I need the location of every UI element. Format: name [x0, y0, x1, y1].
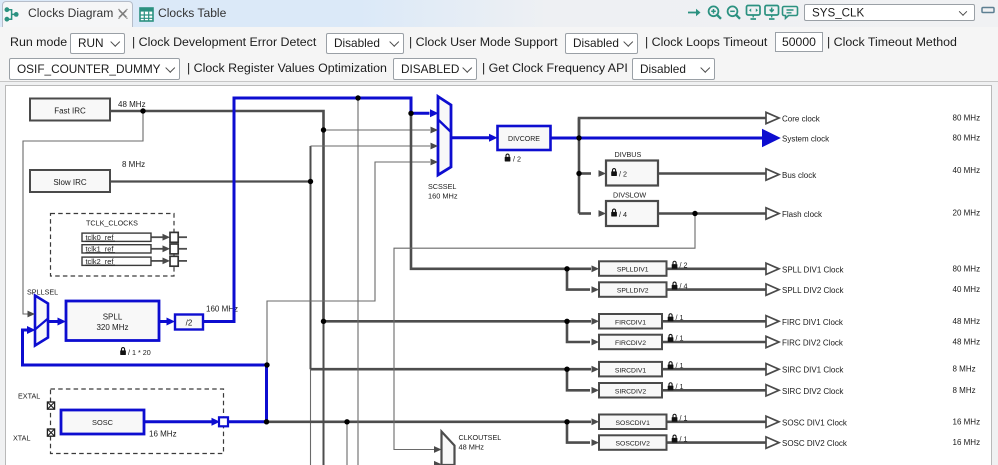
- wire SOSCDIV1 out: [667, 420, 767, 423]
- svg-text:SPLL DIV2 Clock: SPLL DIV2 Clock: [782, 286, 845, 295]
- svg-text:48 MHz: 48 MHz: [118, 100, 146, 109]
- svg-text:TCLK_CLOCKS: TCLK_CLOCKS: [86, 219, 138, 228]
- wire SIRC vertical: [310, 146, 312, 369]
- node SOSC sense tap: [264, 362, 269, 367]
- svg-text:SIRCDIV1: SIRCDIV1: [615, 367, 647, 374]
- clocks diagram tab icon: [3, 5, 25, 25]
- clocks table tab icon: [139, 7, 154, 22]
- node SOSC output square: [212, 417, 229, 426]
- wire SIRCDIV2 branch: [567, 369, 590, 390]
- node FIRC to SCSSEL tap: [321, 127, 326, 132]
- svg-text:SOSCDIV1: SOSCDIV1: [616, 420, 651, 427]
- svg-text:FIRCDIV2: FIRCDIV2: [615, 340, 646, 347]
- lock SIRCDIV1 / 1: [668, 361, 684, 370]
- svg-text:16 MHz: 16 MHz: [953, 438, 981, 447]
- wire DIVSLOW input: [579, 212, 591, 215]
- wire tclk0 stub: [178, 236, 187, 238]
- node DIVBUS branch: [576, 171, 581, 176]
- svg-text:Flash clock: Flash clock: [782, 210, 823, 219]
- lock SOSCDIV2 / 1: [672, 434, 688, 443]
- wire bus clock out: [658, 172, 766, 175]
- svg-text:FIRC DIV1 Clock: FIRC DIV1 Clock: [782, 318, 844, 327]
- svg-text:/ 1: / 1: [676, 382, 684, 391]
- wire tclk2 out: [151, 260, 164, 262]
- source Slow IRC: [30, 170, 110, 192]
- svg-text:FIRC DIV2 Clock: FIRC DIV2 Clock: [782, 339, 844, 348]
- node SOSC junction: [264, 419, 269, 424]
- top-right view toolbar icons: [684, 2, 804, 24]
- input tclk0_ref: [82, 232, 178, 242]
- svg-text:DIVBUS: DIVBUS: [615, 150, 642, 159]
- svg-text:EXTAL: EXTAL: [18, 392, 40, 401]
- wire SPLL clkout sense: [357, 98, 359, 465]
- output Flash clock: [766, 208, 980, 219]
- minimize icon: [981, 6, 996, 15]
- svg-text:/ 1: / 1: [676, 313, 684, 322]
- divider DIVCORE: [489, 126, 551, 150]
- wire SOSC feed to SOSCDIV: [268, 420, 591, 423]
- wire SOSCDIV2 branch: [567, 422, 590, 443]
- node FIRCDIV feed: [321, 319, 326, 324]
- lock FIRCDIV2 / 1: [668, 334, 684, 343]
- svg-text:8 MHz: 8 MHz: [953, 386, 976, 395]
- svg-text:SPLL: SPLL: [103, 313, 123, 322]
- toolbar row 1: [10, 35, 67, 49]
- svg-text:DIVCORE: DIVCORE: [508, 136, 540, 143]
- input tclk1_ref: [82, 244, 178, 254]
- svg-text:8 MHz: 8 MHz: [122, 160, 145, 169]
- source Fast IRC: [30, 99, 110, 121]
- svg-text:SIRC DIV2 Clock: SIRC DIV2 Clock: [782, 387, 844, 396]
- lock SPLLDIV2 / 4: [672, 282, 688, 291]
- divider SOSCDIV1: [592, 415, 667, 430]
- selected tab: Clocks Diagram: [2, 1, 133, 27]
- svg-text:FIRCDIV1: FIRCDIV1: [615, 319, 646, 326]
- svg-text:SPLLSEL: SPLLSEL: [27, 288, 58, 297]
- svg-text:16 MHz: 16 MHz: [953, 417, 981, 426]
- lock FIRCDIV1 / 1: [668, 313, 684, 322]
- svg-text:Fast IRC: Fast IRC: [54, 107, 86, 116]
- svg-text:48 MHz: 48 MHz: [953, 338, 981, 347]
- wire SIRCDIV2 out: [662, 389, 766, 392]
- mux SPLLSEL: [27, 288, 58, 346]
- wire divbus divslow vertical: [578, 118, 581, 214]
- output FIRC DIV2 Clock: [766, 336, 980, 347]
- wire SIRC stub to SCSSEL in3: [311, 145, 431, 147]
- divider SPLLDIV2: [592, 282, 667, 297]
- group SOSC dashed box: [51, 389, 224, 454]
- wire core clock branch: [579, 118, 766, 138]
- svg-text:/ 1: / 1: [680, 414, 688, 423]
- toolbar row 2: [9, 58, 180, 80]
- svg-text:SPLL DIV1 Clock: SPLL DIV1 Clock: [782, 265, 845, 274]
- svg-text:80 MHz: 80 MHz: [953, 134, 981, 143]
- wire SOSC clkout sense: [346, 422, 348, 465]
- tab close icon: [117, 8, 129, 20]
- svg-text:40 MHz: 40 MHz: [953, 166, 981, 175]
- input tclk2_ref: [82, 256, 178, 266]
- wire div2 out to SCSSEL in1: [203, 98, 430, 322]
- svg-text:80 MHz: 80 MHz: [953, 264, 981, 273]
- output SPLL DIV2 Clock: [766, 284, 980, 295]
- node Fast IRC tap: [140, 108, 145, 113]
- wire DIVBUS input: [579, 172, 591, 175]
- svg-text:SOSC DIV1 Clock: SOSC DIV1 Clock: [782, 418, 848, 427]
- wire flash clock out: [658, 212, 766, 215]
- svg-text:SIRCDIV2: SIRCDIV2: [615, 388, 647, 395]
- svg-text:48 MHz: 48 MHz: [459, 443, 485, 452]
- node SOSCDIV branch: [564, 419, 569, 424]
- node SPLL mux junction: [408, 111, 413, 116]
- divider DIVSLOW: [599, 191, 659, 227]
- node SPLLDIV branch: [564, 266, 569, 271]
- wire system clock out: [551, 137, 765, 140]
- svg-text:SPLLDIV2: SPLLDIV2: [617, 288, 649, 295]
- wire tclk0 out: [151, 236, 164, 238]
- wire SOSCDIV2 out: [667, 441, 767, 444]
- svg-text:/ 4: / 4: [619, 210, 627, 219]
- svg-text:Bus clock: Bus clock: [782, 171, 817, 180]
- divider /2 of SPLL: [167, 315, 204, 330]
- svg-text:/ 2: / 2: [619, 170, 627, 179]
- pin EXTAL: [18, 392, 55, 410]
- node SPLL top tap: [355, 95, 360, 100]
- svg-text:Core clock: Core clock: [782, 115, 821, 124]
- node SIRCDIV branch: [564, 367, 569, 372]
- output Bus clock: [766, 166, 980, 180]
- svg-text:SIRC DIV1 Clock: SIRC DIV1 Clock: [782, 366, 844, 375]
- wire SPLLDIV2 out: [667, 288, 767, 291]
- node flash sense tap: [692, 211, 697, 216]
- divider SPLLDIV1: [592, 261, 667, 276]
- wire FIRC branch to SPLLSEL in1: [23, 111, 143, 314]
- output SPLL DIV1 Clock: [766, 263, 980, 274]
- output FIRC DIV1 Clock: [766, 316, 980, 327]
- divider FIRCDIV1: [592, 314, 663, 329]
- wire SIRC net: Slow IRC out: [110, 180, 311, 182]
- wire FIRC vertical lower stub: [323, 321, 325, 465]
- mux CLKOUTSEL: [434, 432, 501, 465]
- wire flash sense to CLKOUTSEL in1: [394, 214, 695, 450]
- svg-text:40 MHz: 40 MHz: [953, 285, 981, 294]
- wire SIRCDIV feed: [311, 368, 592, 371]
- svg-text:8 MHz: 8 MHz: [953, 365, 976, 374]
- svg-text:SOSCDIV2: SOSCDIV2: [616, 441, 651, 448]
- svg-text:/ 4: / 4: [680, 282, 688, 291]
- wire FIRC stub to SCSSEL in2: [324, 129, 431, 131]
- wire SPLL net down to SPLLDIV feed: [411, 113, 591, 268]
- tab strip background: [0, 0, 998, 27]
- svg-text:SOSC DIV2 Clock: SOSC DIV2 Clock: [782, 439, 848, 448]
- svg-text:320 MHz: 320 MHz: [96, 323, 128, 332]
- pll SPLL 320 MHz: [58, 301, 160, 341]
- wire SOSC sense to SCSSEL in4: [267, 162, 430, 364]
- lock SPLLDIV1 / 2: [672, 261, 688, 270]
- lock SPLL / 1 * 20: [120, 348, 151, 357]
- divider SIRCDIV2: [592, 383, 663, 398]
- output System clock: [762, 129, 980, 147]
- lock SIRCDIV2 / 1: [668, 382, 684, 391]
- mux SCSSEL: [428, 97, 458, 201]
- svg-text:/ 2: / 2: [513, 155, 521, 164]
- svg-text:/ 1: / 1: [676, 361, 684, 370]
- node FIRCDIV2 branch: [564, 319, 569, 324]
- svg-text:SPLLDIV1: SPLLDIV1: [617, 267, 649, 274]
- wire SPLL out to div2: [159, 320, 167, 323]
- lock DIVCORE / 2: [505, 154, 521, 163]
- svg-text:Slow IRC: Slow IRC: [53, 178, 87, 187]
- wire SCSSEL out to DIVCORE: [451, 136, 490, 139]
- output Core clock: [766, 112, 980, 123]
- wire SIRCDIV1 out: [662, 368, 766, 371]
- wire FIRCDIV2 out: [662, 341, 766, 344]
- svg-text:XTAL: XTAL: [13, 434, 30, 443]
- wire tclk2 stub: [178, 260, 187, 262]
- svg-text:DIVSLOW: DIVSLOW: [613, 191, 646, 200]
- svg-text:16 MHz: 16 MHz: [149, 430, 177, 439]
- svg-text:/ 1: / 1: [676, 334, 684, 343]
- wire system clock blue path SOSC to SPLLSEL: [23, 98, 765, 422]
- svg-text:80 MHz: 80 MHz: [953, 114, 981, 123]
- output SOSC DIV1 Clock: [766, 416, 980, 427]
- node Slow IRC tap: [308, 179, 313, 184]
- svg-text:48 MHz: 48 MHz: [953, 317, 981, 326]
- divider DIVBUS: [599, 150, 659, 186]
- wire SPLLDIV2 branch: [567, 269, 590, 290]
- svg-text:160 MHz: 160 MHz: [428, 192, 458, 201]
- wire SPLLSEL out to SPLL: [48, 320, 58, 323]
- svg-text:/ 1: / 1: [680, 434, 688, 443]
- wire tclk1 stub: [178, 248, 187, 250]
- wire SIRC vertical lower stub: [310, 369, 312, 465]
- svg-text:SCSSEL: SCSSEL: [428, 182, 456, 191]
- wire FIRCDIV2 branch: [567, 321, 590, 342]
- divider SIRCDIV1: [592, 362, 663, 377]
- toolbar background: [0, 27, 998, 82]
- output SOSC DIV2 Clock: [766, 437, 980, 448]
- output SIRC DIV2 Clock: [766, 385, 976, 396]
- SYS_CLK combo: [804, 4, 975, 21]
- pin XTAL: [13, 429, 55, 443]
- node system clock branch: [576, 135, 581, 140]
- wire tclk1 out: [151, 248, 164, 250]
- divider FIRCDIV2: [592, 335, 663, 350]
- wire SPLLDIV1 out: [667, 267, 767, 270]
- node SOSC clkout tap: [344, 419, 349, 424]
- svg-text:/ 2: / 2: [680, 261, 688, 270]
- svg-text:/ 1 * 20: / 1 * 20: [128, 348, 151, 357]
- svg-text:System clock: System clock: [782, 135, 830, 144]
- output SIRC DIV1 Clock: [766, 364, 976, 375]
- svg-text:SOSC: SOSC: [92, 418, 114, 427]
- divider SOSCDIV2: [592, 435, 667, 450]
- oscillator SOSC: [61, 410, 144, 434]
- wire FIRCDIV1 out: [662, 320, 766, 323]
- svg-text:20 MHz: 20 MHz: [953, 209, 981, 218]
- group TCLK_CLOCKS dashed box: [51, 214, 175, 277]
- lock SOSCDIV1 / 1: [672, 414, 688, 423]
- svg-text:/2: /2: [186, 319, 193, 328]
- svg-text:CLKOUTSEL: CLKOUTSEL: [459, 433, 502, 442]
- wire FIRC net: Fast IRC out, down, FIRCDIV feed: [110, 111, 591, 321]
